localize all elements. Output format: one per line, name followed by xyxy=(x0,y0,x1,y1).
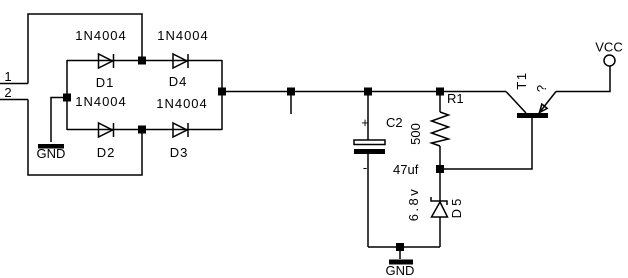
svg-text:-: - xyxy=(363,160,367,175)
svg-text:T1: T1 xyxy=(514,71,529,89)
svg-text:500: 500 xyxy=(408,123,423,145)
svg-text:1: 1 xyxy=(4,69,11,84)
svg-text:1N4004: 1N4004 xyxy=(156,96,208,111)
svg-text:?: ? xyxy=(534,85,549,92)
svg-text:R1: R1 xyxy=(447,91,464,106)
svg-text:VCC: VCC xyxy=(595,40,622,55)
svg-text:C2: C2 xyxy=(386,115,403,130)
svg-text:6.8v: 6.8v xyxy=(406,187,421,222)
svg-text:1N4004: 1N4004 xyxy=(75,94,127,109)
svg-text:D1: D1 xyxy=(96,75,115,90)
svg-text:47uf: 47uf xyxy=(393,162,419,177)
svg-text:1N4004: 1N4004 xyxy=(157,28,209,43)
svg-text:D5: D5 xyxy=(449,196,464,219)
svg-text:1N4004: 1N4004 xyxy=(75,28,127,43)
svg-text:2: 2 xyxy=(4,85,11,100)
svg-text:D2: D2 xyxy=(97,145,116,160)
svg-text:GND: GND xyxy=(386,263,415,278)
svg-text:GND: GND xyxy=(37,146,66,161)
svg-text:+: + xyxy=(361,115,369,130)
svg-text:D3: D3 xyxy=(170,145,189,160)
svg-text:D4: D4 xyxy=(169,74,188,89)
